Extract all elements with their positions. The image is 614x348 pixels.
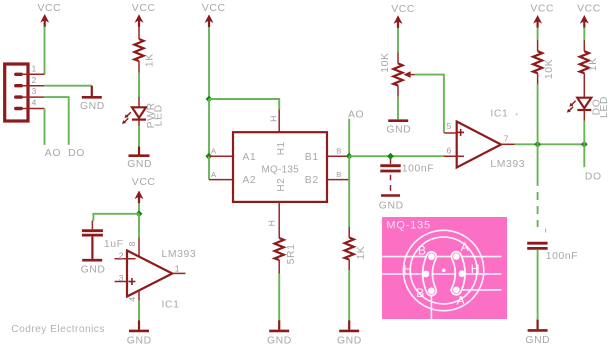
J1 pad 2 [16,84,21,87]
svg-text:B1: B1 [305,152,319,163]
svg-text:B: B [416,286,425,300]
resistor R (1K PWR) [134,26,143,73]
J1 pin 2 stub [22,85,45,87]
wire VCC rail down to A node [208,99,210,156]
wire PWR LED to ground [138,126,140,147]
svg-text:B: B [418,244,427,258]
svg-text:H: H [267,220,277,226]
svg-text:6: 6 [447,145,452,155]
wire 1K load to ground [348,270,350,321]
svg-text:VCC: VCC [38,3,62,14]
svg-text:2: 2 [32,75,37,85]
svg-text:B2: B2 [305,175,319,186]
plus input marker (pin 3) [128,278,135,285]
junction (DO LED tap) [581,141,588,148]
junction (VCC rail / H branch) [206,96,213,103]
svg-text:4: 4 [32,98,37,108]
ground symbol (1uF) [81,260,106,275]
svg-text:LED: LED [154,104,165,126]
trimmer potentiometer (10K) [393,52,415,96]
svg-text:LM393: LM393 [162,249,197,260]
svg-text:VCC: VCC [132,177,156,188]
dashed wire 100nF to ground [390,175,392,191]
J1 pad 1 [16,73,21,76]
svg-text:AO: AO [45,148,61,159]
svg-text:7: 7 [504,134,509,144]
ground symbol (5R1) [267,320,292,346]
MQ-135 pin H2 stub [278,202,280,238]
wire 1K to PWR LED [138,73,140,98]
svg-text:IC1: IC1 [490,109,508,120]
wire supply junction into IC1 pin 8 [138,214,140,238]
wire VCC to 10K pull-up [537,28,539,41]
ground symbol (PWR LED) [127,147,152,171]
J1 pin 1 stub [22,73,45,75]
svg-text:VCC: VCC [391,4,415,15]
svg-text:VCC: VCC [132,3,156,14]
power symbol VCC (MQ-135 rail) [202,3,226,27]
wire VCC to J1 pin 1 [44,27,46,75]
ground symbol (1K load) [337,320,362,346]
svg-text:5R1: 5R1 [286,243,297,264]
diode LED (PWR) [132,97,146,126]
svg-text:VCC: VCC [577,4,601,15]
IC1A pin 7 output stub [501,143,515,145]
svg-text:DO: DO [68,148,85,159]
MQ-135 pin A1 stub [210,155,234,157]
wire VCC to trimmer [397,28,399,53]
IC1A pin 6 stub / minus marker [444,155,465,157]
plus input marker (pin 5) [457,129,464,136]
ground symbol (100nF filter) [379,196,404,212]
power symbol VCC (IC1 supply) [132,177,156,203]
name label PWR LED [146,102,164,128]
footprint outer circle [403,230,483,310]
svg-text:B: B [336,147,341,156]
resistor R (5R1 heater) [275,238,284,274]
wire DO LED to output line [583,121,585,145]
connector J1 body [5,64,28,121]
IC1A pin 5 stub [444,132,456,134]
wire output to DO node [583,144,585,167]
MQ-135 footprint image (pink) [382,217,507,319]
svg-text:IC1: IC1 [162,299,180,310]
footprint trace bottom [430,292,432,319]
wire B1 to comparator input [349,155,443,157]
capacitor C (1uF) [82,221,103,259]
svg-text:4: 4 [127,297,137,302]
svg-text:Codrey Electronics: Codrey Electronics [11,324,105,335]
wire J1 pin 3 to DO [44,97,68,145]
svg-text:H1: H1 [276,141,287,155]
svg-text:VCC: VCC [530,4,554,15]
svg-text:1uF: 1uF [104,239,124,250]
IC1 pin 8 stub [138,238,140,257]
svg-text:GND: GND [127,159,152,170]
wire B1 junction down to 1K load [348,156,350,227]
wire J1 pin 2 to ground [44,85,92,87]
wire trimmer to ground [397,97,399,120]
svg-text:GND: GND [525,335,550,346]
J1 pad 4 [16,107,21,110]
wire 5R1 to ground [278,274,280,321]
footprint right pad group [456,257,460,290]
svg-text:10K: 10K [380,52,391,72]
wire IC1 pin 4 to ground [138,301,140,321]
wire 100nF to ground (right) [537,250,539,320]
IC1B pin 3 stub [115,281,129,283]
LED emission arrows (DO) [567,101,576,113]
svg-text:5: 5 [447,121,452,131]
svg-text:1K: 1K [144,53,155,67]
wire junction to 1uF [93,214,139,221]
svg-text:100nF: 100nF [546,251,578,262]
svg-text:GND: GND [337,335,362,346]
wire J1 pin 4 to AO [44,109,46,145]
svg-text:B: B [336,170,341,179]
svg-text:GND: GND [267,335,292,346]
svg-text:H: H [471,262,481,276]
wire AO down to B1 junction [348,119,350,156]
ground symbol (IC1) [127,320,152,346]
IC1 pin 4 stub [138,291,140,301]
wire A junction down to A2 [208,156,210,179]
svg-text:AO: AO [348,109,364,120]
svg-text:LED: LED [599,96,610,118]
svg-text:100nF: 100nF [402,163,434,174]
power symbol VCC (PWR LED branch) [132,3,156,27]
svg-text:MQ-135: MQ-135 [386,219,431,231]
svg-text:3: 3 [119,273,124,283]
wire comparator output line [515,143,585,145]
svg-text:1K: 1K [588,57,599,71]
svg-text:8: 8 [127,241,137,246]
power symbol VCC (DO LED) [577,4,601,28]
svg-text:3: 3 [32,86,37,96]
resistor R (1K load) [345,227,354,270]
svg-text:A: A [457,293,466,307]
op-amp IC1 comparator (unit B, LM393) [127,251,172,297]
ground symbol (J1 pin 2) [80,86,105,112]
footprint pads [423,253,466,294]
footprint inner circle [410,237,477,304]
svg-text:GND: GND [80,101,105,112]
svg-text:1K: 1K [356,246,367,260]
svg-text:MQ-135: MQ-135 [262,165,300,176]
svg-text:LM393: LM393 [490,159,525,170]
ground symbol (100nF right) [525,320,550,346]
capacitor C (100nF filter) [380,159,400,171]
stray tick artifact [545,229,547,233]
MQ-135 pin B2 stub [327,179,349,181]
capacitor C (100nF right) [527,243,547,248]
junction (VCC rail / A pins) [205,153,212,160]
svg-text:2: 2 [119,250,124,260]
wire 10K pull-up to output line [537,84,539,144]
ground symbol (trimmer) [386,121,411,136]
op-amp IC1 comparator (unit A, LM393) [457,122,501,168]
junction (100nF filter tap) [387,153,394,160]
wire VCC to 1K (DO LED) [583,28,585,41]
svg-text:A: A [461,240,470,254]
svg-text:A1: A1 [242,152,256,163]
wire VCC rail down to H node [208,27,210,99]
junction (pull-up tap) [534,141,541,148]
svg-text:GND: GND [386,124,411,135]
MQ-135 pin B1 stub [327,155,349,157]
LED emission arrows (PWR) [122,112,131,124]
resistor R (10K pull-up) [533,40,542,84]
power symbol VCC (trimmer) [391,4,415,28]
resistor R (1K DO LED) [580,40,589,97]
svg-text:H2: H2 [276,178,287,192]
IC1B pin 1 output stub [173,272,186,274]
svg-text:10K: 10K [544,59,555,79]
wire H branch to MQ-135 pin H1 [209,99,279,110]
diode LED (DO) [577,98,591,121]
svg-text:GND: GND [81,264,106,275]
J1 pin 4 stub [22,108,45,110]
footprint trace row 3 [450,289,502,291]
dashed wire output to 100nF (right) [537,144,539,227]
svg-text:GND: GND [127,335,152,346]
J1 pin 3 stub [22,96,45,98]
IC1B pin 2 stub / minus marker [115,258,136,260]
MQ-135 pin H1 stub [278,110,280,132]
svg-text:1: 1 [175,263,180,273]
junction (IC1 supply / 1uF) [136,210,143,217]
svg-text:H: H [268,116,278,122]
power symbol VCC (pull-up) [530,4,554,28]
power symbol VCC (net VCC at J1 pin1) [38,3,62,27]
svg-text:GND: GND [379,201,404,212]
wire VCC to supply junction [138,203,140,214]
MQ-135 pin A2 stub [209,179,233,181]
svg-text:VCC: VCC [202,3,226,14]
stray dot artifact [516,113,518,115]
J1 pad 3 [16,95,21,98]
svg-text:1: 1 [32,63,37,73]
wire trimmer wiper to comparator pin 5 [415,75,444,133]
name label DO LED [591,96,610,118]
gas sensor U1 MQ-135 body [233,132,327,202]
footprint left pad group [428,257,432,291]
footprint trace row 2 [382,273,502,275]
svg-text:A2: A2 [242,175,256,186]
svg-text:H: H [403,263,413,277]
junction (B1 / AO / B2) [346,153,353,160]
footprint trace row 1 [382,256,502,258]
svg-text:DO: DO [585,171,602,182]
